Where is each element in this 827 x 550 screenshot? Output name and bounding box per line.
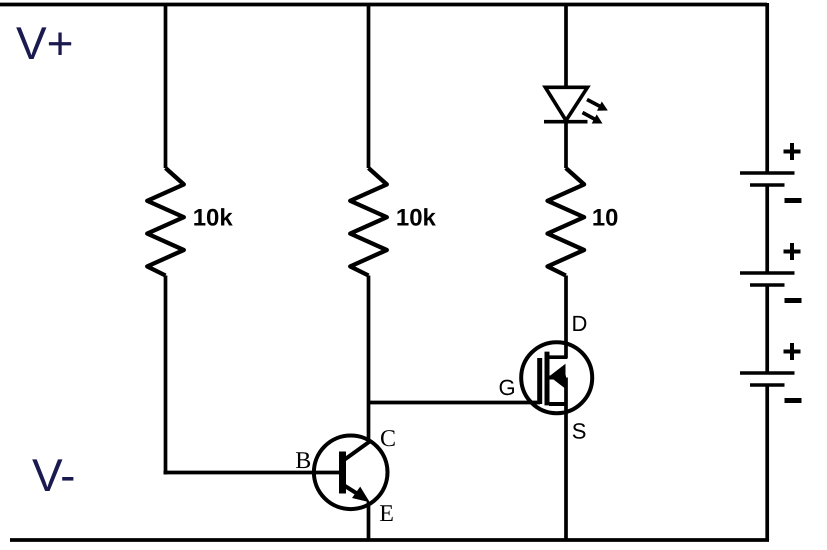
LED cathode bar: [544, 120, 588, 124]
Q1 emitter lead: [345, 486, 359, 495]
cell 1 positive plate: [740, 171, 795, 175]
wire left branch bottom: [164, 276, 168, 475]
resistor R2 10k: [350, 168, 387, 276]
cell 3 plus sign: [784, 343, 801, 360]
battery B1 cell 3: [740, 343, 802, 401]
svg-text:E: E: [379, 501, 394, 527]
source bottom stub: [549, 402, 566, 406]
cell 2 positive plate: [740, 271, 795, 275]
cell 3 minus sign: [785, 398, 802, 403]
wire drain lead: [549, 276, 566, 358]
wire left branch top: [164, 3, 168, 168]
Q1 body circle: [314, 436, 388, 510]
wire emitter to bottom rail: [367, 502, 371, 541]
Q1 base bar: [339, 452, 346, 494]
svg-text:10k: 10k: [396, 204, 437, 231]
Q1 collector lead: [345, 441, 370, 459]
wire battery branch segments: [765, 3, 769, 540]
Q1 emitter arrow: [352, 487, 370, 503]
svg-text:10k: 10k: [193, 204, 234, 231]
wire gate lead: [369, 401, 541, 405]
svg-text:V+: V+: [16, 17, 74, 69]
wire right branch top: [564, 3, 568, 87]
svg-text:C: C: [380, 426, 396, 452]
svg-text:G: G: [499, 375, 516, 400]
MOSFET Q2: [521, 342, 592, 413]
cell 2 minus sign: [785, 298, 802, 303]
cell 3 positive plate: [740, 371, 795, 375]
cell 3 negative plate: [750, 383, 785, 387]
resistor R3 10: [548, 168, 585, 276]
cell 2 plus sign: [784, 243, 801, 260]
wire bottom rail V-: [10, 538, 769, 542]
cell 2 negative plate: [750, 283, 785, 287]
Q2 body circle: [521, 342, 592, 413]
svg-text:D: D: [572, 311, 588, 336]
svg-text:10: 10: [592, 204, 619, 231]
wire middle branch top: [367, 3, 371, 168]
battery B1 cell 1: [740, 143, 802, 201]
cell 1 plus sign: [784, 143, 801, 160]
LED anode triangle: [545, 87, 587, 120]
svg-text:V-: V-: [32, 449, 75, 501]
source middle stub: [549, 376, 566, 380]
wire base lead: [164, 471, 340, 475]
battery B1 cell 2: [740, 243, 802, 301]
channel bar: [545, 352, 550, 406]
LED light arrow 1: [587, 100, 608, 111]
svg-text:S: S: [572, 418, 587, 443]
cell 1 negative plate: [750, 183, 785, 187]
wire LED to resistor: [564, 122, 568, 169]
resistor R1 10k: [147, 168, 184, 276]
wire top rail V+: [0, 3, 767, 7]
body arrow: [549, 364, 565, 389]
svg-text:B: B: [295, 448, 311, 474]
LED D1: [544, 87, 588, 121]
wire source to bottom rail: [564, 378, 568, 541]
transistor Q1 NPN: [314, 436, 388, 510]
LED light arrow 2: [583, 113, 603, 124]
gate bar: [537, 358, 542, 404]
wire middle branch to collector: [367, 276, 371, 442]
cell 1 minus sign: [785, 198, 802, 203]
